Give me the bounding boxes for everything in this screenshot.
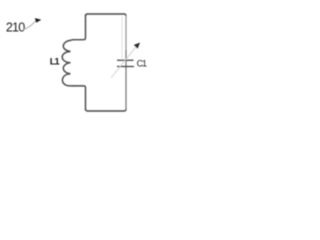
svg-text:L1: L1	[50, 56, 61, 67]
svg-text:C1: C1	[137, 58, 147, 68]
variable-capacitor diagonal arrow	[111, 43, 140, 78]
wire: right vertical lower part	[125, 50, 127, 110]
wire: left vertical top segment	[74, 15, 86, 40]
faint scan artifact line left of capacitor branch	[121, 16, 123, 60]
leader arrow for 210	[23, 18, 41, 29]
wire: right vertical (capacitor branch)	[125, 15, 127, 50]
wire: left vertical bottom segment	[73, 86, 86, 110]
wire: bottom rail	[86, 109, 127, 111]
capacitor C1 bottom plate	[117, 66, 134, 68]
inductor L1	[62, 40, 74, 86]
wire: top rail	[86, 14, 127, 16]
capacitor C1 top plate	[117, 59, 134, 61]
svg-text:210: 210	[6, 20, 25, 34]
